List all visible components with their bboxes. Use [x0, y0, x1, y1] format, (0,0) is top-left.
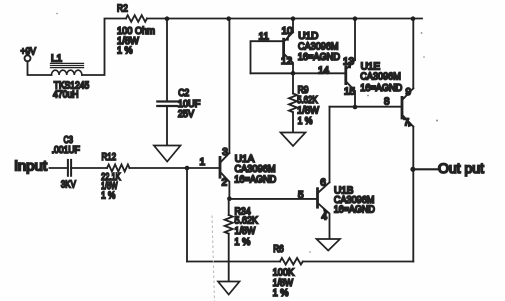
ground (C2) — [154, 146, 181, 162]
resistor R9 — [289, 73, 320, 127]
transistor U1A — [220, 147, 276, 199]
svg-text:R2: R2 — [117, 3, 128, 14]
wire R12 to U1A base — [130, 167, 220, 169]
wire node 14 line (mirror bus) — [251, 72, 346, 74]
resistor R2 — [117, 3, 155, 56]
capacitor C3 — [52, 135, 80, 191]
node dot U1E emitter/rail — [353, 16, 358, 21]
wire U1A emitter to U1B base, pin 5 — [229, 198, 316, 200]
svg-text:16=AGND: 16=AGND — [334, 204, 375, 215]
wire C2 to ground — [166, 106, 168, 146]
node dot output transistor collector/rail — [411, 16, 416, 21]
ground (U1B) — [317, 239, 341, 251]
node dot U1D emitter/rail — [291, 16, 296, 21]
resistor R6 — [273, 244, 303, 299]
node A input/feedback junction — [185, 166, 190, 171]
wire L1 to top rail corner — [82, 19, 126, 76]
svg-text:16=AGND: 16=AGND — [360, 83, 402, 94]
wire U1D emitter to rail — [292, 19, 294, 33]
svg-text:CA3096M: CA3096M — [360, 72, 401, 83]
svg-text:CA3096M: CA3096M — [298, 41, 339, 52]
svg-text:.001UF: .001UF — [52, 145, 80, 156]
resistor R34 — [225, 207, 258, 248]
node dot U1A emitter — [227, 196, 232, 201]
svg-text:U1D: U1D — [298, 31, 318, 42]
svg-text:CA3096M: CA3096M — [235, 164, 276, 175]
transistor U1E — [343, 57, 402, 108]
wire U1A emitter node to R34 — [228, 199, 230, 215]
wire output stub — [413, 168, 437, 170]
svg-text:470uH: 470uH — [53, 90, 79, 101]
ground (R34) — [218, 282, 240, 295]
svg-text:2: 2 — [222, 178, 228, 189]
svg-text:16=AGND: 16=AGND — [234, 175, 276, 186]
wire emitter down to bottom rail — [412, 127, 414, 262]
svg-text:8: 8 — [384, 97, 390, 108]
svg-text:9: 9 — [406, 87, 412, 98]
svg-text:4: 4 — [322, 212, 328, 223]
capacitor C2 — [157, 88, 200, 120]
scan speck marks — [56, 13, 438, 253]
svg-text:25V: 25V — [178, 109, 194, 120]
svg-text:5: 5 — [298, 190, 304, 201]
svg-text:7: 7 — [404, 118, 410, 129]
svg-text:Out put: Out put — [438, 160, 484, 176]
wire supply terminal to L1 — [28, 61, 52, 75]
wire output transistor collector to rail — [412, 19, 414, 89]
svg-text:10: 10 — [282, 26, 294, 37]
svg-text:input: input — [15, 158, 48, 174]
wire input to C3 — [50, 167, 68, 169]
ground (R9) — [281, 133, 306, 147]
scan artifact dotted line — [212, 216, 215, 301]
svg-text:14: 14 — [318, 66, 330, 77]
svg-text:15: 15 — [344, 87, 356, 98]
svg-text:1 %: 1 % — [298, 116, 313, 127]
node dot output — [410, 167, 415, 172]
wire node 8 line — [330, 106, 402, 108]
svg-text:R6: R6 — [273, 244, 284, 255]
wire U1A collector to rail — [228, 19, 230, 154]
resistor R12 — [101, 152, 129, 202]
svg-text:3KV: 3KV — [61, 179, 76, 190]
node dot U1E collector node 8 — [353, 105, 358, 110]
node dot U1D collector/R9 — [291, 71, 296, 76]
svg-text:12: 12 — [281, 56, 293, 67]
wire rail to C2 — [166, 19, 168, 102]
svg-text:1 %: 1 % — [234, 237, 250, 248]
wire C3 to R12 — [71, 167, 107, 169]
wire U1D base loop — [251, 41, 284, 73]
svg-text:1/8W: 1/8W — [235, 226, 256, 237]
output transistor (pins 9,8,7) — [402, 87, 413, 128]
svg-text:3: 3 — [222, 147, 228, 158]
wire bottom rail left — [187, 261, 280, 263]
svg-text:6: 6 — [320, 178, 326, 189]
svg-text:1/8W: 1/8W — [297, 105, 319, 116]
svg-text:1: 1 — [200, 157, 206, 168]
wire U1B collector up to node 8 line — [329, 107, 331, 183]
svg-text:R12: R12 — [102, 152, 117, 163]
svg-text:1 %: 1 % — [273, 288, 289, 299]
wire bottom rail right — [303, 261, 414, 263]
top +V rail wire — [147, 18, 422, 20]
node dot U1A collector/rail — [226, 16, 231, 21]
wire R34 to ground — [228, 234, 230, 282]
svg-text:16=AGND: 16=AGND — [298, 52, 340, 63]
svg-text:1 %: 1 % — [117, 46, 133, 57]
transistor U1D — [259, 26, 341, 73]
inductor L1 — [51, 53, 90, 100]
node dot C2/rail — [165, 16, 170, 21]
wire U1E emitter to rail — [354, 19, 356, 61]
svg-text:L1: L1 — [51, 53, 63, 64]
+9V supply terminal — [21, 46, 37, 61]
wire R9 to ground — [292, 112, 294, 132]
transistor U1B — [318, 178, 375, 239]
wire feedback left vertical — [186, 168, 188, 262]
svg-text:13: 13 — [343, 57, 355, 68]
svg-text:1 %: 1 % — [101, 191, 115, 202]
svg-text:C2: C2 — [178, 88, 189, 99]
